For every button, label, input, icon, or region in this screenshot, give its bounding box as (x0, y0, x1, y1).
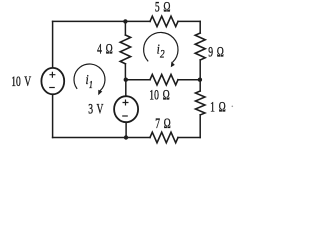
label 4 ohm (97, 40, 113, 57)
wire: top left segment (53, 20, 150, 22)
label i2 (157, 41, 165, 60)
label 7 ohm (155, 115, 171, 132)
label 10 ohm (149, 87, 169, 104)
mesh current i2 arc (144, 32, 178, 62)
speck artifact near 1 ohm label (232, 106, 234, 108)
junction dot: bottom node (124, 135, 128, 139)
V2 plus sign (123, 100, 128, 105)
resistor R 7ohm zigzag (150, 132, 178, 143)
wire: bottom left segment (53, 137, 150, 139)
junction dot: middle left node (124, 78, 128, 82)
wire: 3V branch top stub (125, 80, 127, 96)
label i1 (86, 72, 93, 90)
svg-text:10 V: 10 V (11, 73, 31, 90)
svg-text:10 Ω: 10 Ω (149, 87, 169, 104)
resistor R 4ohm zigzag (120, 35, 130, 64)
svg-text:3 V: 3 V (88, 101, 103, 118)
wire: right edge middle segment (199, 60, 201, 91)
wire: right edge top stub (199, 21, 201, 33)
svg-text:1 Ω: 1 Ω (210, 99, 226, 116)
label 3 V (88, 101, 103, 118)
resistor R 1ohm zigzag (195, 91, 205, 115)
wire: 4ohm branch top stub (124, 21, 126, 35)
svg-text:i2: i2 (157, 41, 165, 60)
V2 minus sign (123, 115, 127, 117)
voltage source V2 3V circle (114, 96, 138, 122)
svg-text:i1: i1 (86, 72, 93, 90)
wire: top right segment (178, 20, 200, 22)
resistor R 9ohm zigzag (195, 33, 205, 60)
junction dot: middle right node (198, 78, 202, 82)
svg-text:4 Ω: 4 Ω (97, 40, 113, 57)
svg-text:9 Ω: 9 Ω (208, 44, 224, 61)
label 9 ohm (208, 44, 224, 61)
junction dot: top node (123, 19, 127, 23)
wire: 3V branch bottom stub (125, 122, 127, 137)
arrowhead of i1 (98, 90, 102, 96)
wire: left edge upper segment (52, 21, 54, 67)
resistor R 10ohm zigzag (150, 75, 178, 85)
wire: right edge bottom stub (199, 115, 201, 138)
wire: left edge lower segment (52, 95, 54, 138)
wire: bottom right segment (178, 137, 200, 139)
wire: middle left segment (126, 79, 150, 81)
label 5 ohm (155, 0, 171, 15)
wire: 4ohm branch bottom stub (124, 64, 126, 80)
label 1 ohm (210, 99, 226, 116)
V1 plus sign (50, 72, 55, 77)
svg-text:5 Ω: 5 Ω (155, 0, 171, 15)
arrowhead of i2 (171, 62, 175, 68)
label 10 V (11, 73, 31, 90)
svg-text:7 Ω: 7 Ω (155, 115, 171, 132)
resistor R 5ohm zigzag (150, 16, 178, 26)
V1 minus sign (50, 87, 54, 89)
mesh current i1 arc (74, 64, 105, 91)
voltage source V1 10V circle (41, 68, 64, 94)
wire: middle right segment (178, 79, 200, 81)
